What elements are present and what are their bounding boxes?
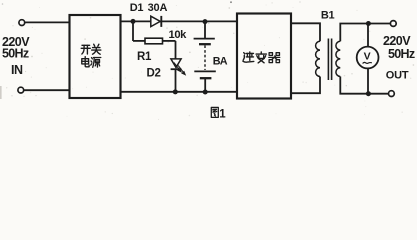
svg-text:IN: IN [11, 63, 23, 77]
svg-text:30A: 30A [148, 2, 168, 14]
svg-text:R1: R1 [137, 51, 152, 63]
svg-text:D1: D1 [130, 2, 144, 14]
svg-text:50Hz: 50Hz [2, 47, 29, 61]
svg-text:D2: D2 [147, 68, 161, 80]
svg-text:B1: B1 [321, 9, 335, 21]
svg-text:50Hz: 50Hz [388, 47, 415, 61]
svg-text:1: 1 [219, 109, 226, 121]
svg-text:V: V [364, 51, 371, 63]
svg-text:BA: BA [213, 55, 228, 67]
svg-text:10k: 10k [169, 29, 188, 41]
svg-text:OUT: OUT [386, 69, 409, 81]
